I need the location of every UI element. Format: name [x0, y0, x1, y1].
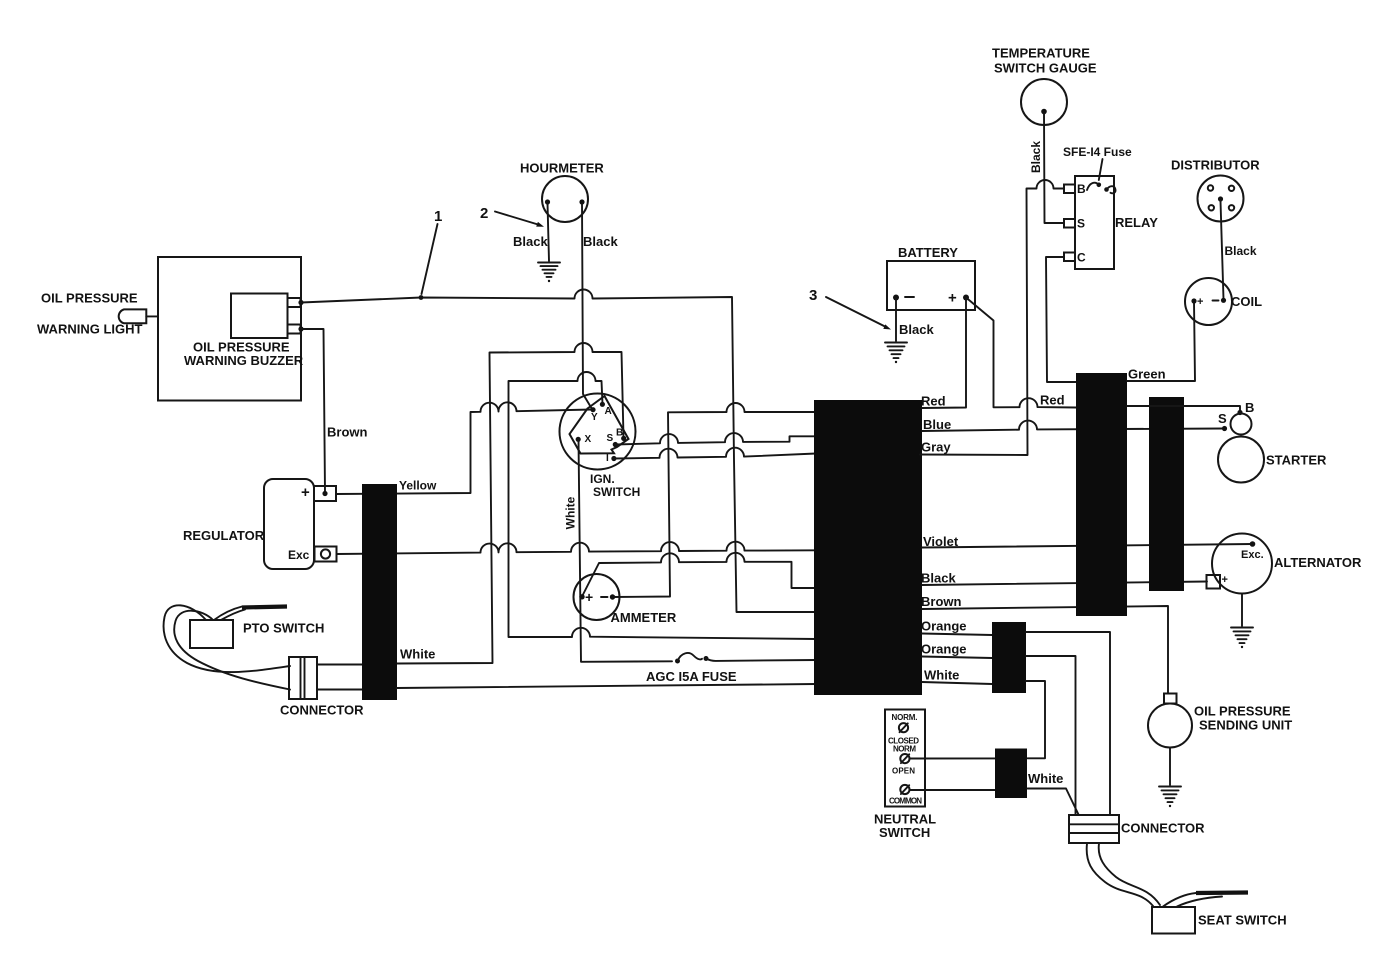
wire regulator Exc to main connector (hops risers) — [337, 542, 817, 554]
svg-text:Exc: Exc — [288, 548, 310, 562]
battery BT1 — [887, 245, 975, 310]
fuse F2 SFE-14 inside relay — [1063, 145, 1132, 193]
ammeter M1 — [574, 574, 677, 625]
connector block4 — [995, 749, 1027, 799]
wire battery minus Black to ground — [895, 299, 897, 342]
svg-text:B: B — [1077, 182, 1086, 196]
wire hourmeter right Black down to ign switch Y — [582, 203, 592, 409]
callout 3 — [809, 287, 891, 330]
svg-text:S: S — [607, 433, 614, 444]
svg-text:+: + — [301, 484, 310, 501]
wire hourmeter left Black to ground — [548, 203, 550, 261]
connector J1 (pto) — [280, 657, 364, 718]
svg-text:IGN.: IGN. — [590, 472, 615, 486]
svg-text:SWITCH GAUGE: SWITCH GAUGE — [994, 61, 1097, 76]
svg-text:Black: Black — [513, 234, 548, 249]
relay K1 — [1064, 176, 1158, 269]
svg-text:A: A — [605, 406, 612, 417]
coil T1 — [1185, 278, 1262, 325]
svg-text:AGC I5A FUSE: AGC I5A FUSE — [646, 669, 737, 684]
svg-text:RELAY: RELAY — [1115, 215, 1158, 230]
node junction 1 on bus — [419, 295, 424, 300]
svg-text:+: + — [948, 290, 957, 307]
starter solenoid — [1231, 414, 1252, 435]
svg-text:+: + — [1222, 574, 1228, 586]
callout 2 — [480, 205, 544, 227]
svg-text:Yellow: Yellow — [399, 479, 437, 493]
ground alternator — [1231, 628, 1253, 649]
neutral switch S3 — [874, 710, 936, 841]
wire Orange 1: main connector to block3 — [922, 634, 992, 636]
wire Red: battery + diagonal to block1 (hops relay riser) — [966, 298, 1076, 408]
svg-text:SWITCH: SWITCH — [879, 825, 930, 840]
node buzzer top terminal — [298, 300, 303, 305]
wire ign S to main connector (Blue row) — [616, 433, 817, 444]
main connector block (harness) — [814, 400, 922, 695]
svg-text:REGULATOR: REGULATOR — [183, 528, 265, 543]
svg-text:2: 2 — [480, 205, 488, 222]
svg-text:PTO SWITCH: PTO SWITCH — [243, 621, 324, 636]
svg-text:Black: Black — [583, 234, 618, 249]
wire Red: block1 to starter B — [1127, 406, 1240, 410]
seat switch S4 — [1152, 893, 1287, 934]
svg-text:S: S — [1218, 411, 1227, 426]
wire Gray: main connector up to relay B — [920, 180, 1064, 455]
svg-text:Gray: Gray — [921, 440, 951, 455]
svg-text:AMMETER: AMMETER — [611, 610, 677, 625]
svg-text:CONNECTOR: CONNECTOR — [1121, 821, 1205, 836]
ground battery — [885, 343, 907, 364]
wire Red: battery + down to main connector — [922, 299, 966, 408]
svg-text:OPEN: OPEN — [892, 767, 915, 776]
wire neutral switch norm-open to block4 — [910, 757, 996, 759]
svg-text:COMMON: COMMON — [889, 797, 922, 806]
svg-text:COIL: COIL — [1231, 294, 1262, 309]
svg-text:NORM.: NORM. — [892, 713, 918, 722]
svg-text:SWITCH: SWITCH — [593, 485, 640, 499]
svg-text:Exc.: Exc. — [1241, 549, 1264, 561]
svg-text:STARTER: STARTER — [1266, 453, 1327, 468]
wire Blue: main connector to starter S — [922, 421, 1224, 431]
ground sending unit — [1159, 787, 1181, 808]
starter solenoid terminal B — [1237, 410, 1242, 415]
svg-text:White: White — [1028, 771, 1063, 786]
svg-text:Black: Black — [1225, 244, 1257, 258]
hourmeter HM1 — [520, 161, 604, 223]
svg-text:I: I — [606, 453, 609, 464]
wire Black: distributor to coil - — [1221, 201, 1224, 299]
wire pto connector to block5 bottom — [317, 689, 362, 691]
wire White: main connector to block3 — [922, 682, 992, 684]
distributor — [1171, 158, 1260, 222]
svg-text:Blue: Blue — [923, 417, 951, 432]
svg-text:Y: Y — [591, 412, 598, 423]
wire Yellow: regulator + to harness riser to ign switch Y — [336, 402, 592, 494]
svg-text:Orange: Orange — [921, 619, 967, 634]
starter motor — [1218, 437, 1327, 483]
fuse F1 AGC 15A — [646, 653, 816, 684]
wire sending unit to ground — [1169, 748, 1171, 786]
svg-text:NORM: NORM — [893, 745, 916, 754]
wire Green: block1 to coil + — [1127, 302, 1195, 381]
svg-text:White: White — [564, 496, 578, 529]
svg-text:OIL PRESSURE: OIL PRESSURE — [1194, 704, 1291, 719]
wire Brown: main connector to oil pressure sending unit — [922, 606, 1168, 693]
svg-text:3: 3 — [809, 287, 817, 304]
wire ammeter minus up and right to main connector (Red row) — [613, 403, 817, 597]
svg-text:+: + — [585, 589, 593, 605]
svg-text:CONNECTOR: CONNECTOR — [280, 703, 364, 718]
wire pto connector to block5 top — [317, 664, 362, 666]
ign switch S1 — [560, 394, 641, 500]
wire bulb to buzzer box — [146, 315, 158, 317]
wire white continuation: block3 to block4 — [1026, 681, 1045, 758]
svg-text:Green: Green — [1128, 367, 1166, 382]
wire Black: gauge down to relay S — [1044, 112, 1064, 223]
svg-text:WARNING BUZZER: WARNING BUZZER — [184, 353, 304, 368]
svg-text:ALTERNATOR: ALTERNATOR — [1274, 555, 1362, 570]
wire ign I to main connector (Gray row) — [614, 448, 816, 459]
alternator — [1207, 534, 1362, 594]
svg-text:Orange: Orange — [921, 642, 967, 657]
svg-text:SFE-I4 Fuse: SFE-I4 Fuse — [1063, 145, 1132, 159]
regulator VR1 — [183, 479, 337, 569]
wire orange 1 continuation: block3 to connector J2 — [1026, 632, 1110, 815]
wire ign X down to fuse line — [579, 440, 673, 662]
oil pressure warning buzzer inner box — [184, 294, 304, 369]
wire White: block5 to ign switch B (via vertical riser and top line) — [397, 343, 624, 664]
oil pressure sending unit — [1148, 694, 1292, 748]
svg-text:B: B — [616, 428, 623, 439]
wire Brown buzzer to regulator + — [301, 329, 325, 492]
wire harness connector J2 to seat switch — [1087, 844, 1160, 907]
wire alternator case to ground — [1241, 594, 1243, 627]
wire neutral switch common to block4 — [910, 789, 996, 791]
svg-text:OIL PRESSURE: OIL PRESSURE — [41, 291, 138, 306]
node buzzer bottom terminal — [298, 326, 303, 331]
connector block1 — [1076, 373, 1127, 616]
svg-text:Brown: Brown — [327, 425, 368, 440]
svg-text:Violet: Violet — [923, 534, 959, 549]
svg-text:1: 1 — [434, 208, 442, 225]
wire Violet: main connector to alternator Exc — [922, 544, 1253, 548]
svg-text:C: C — [1077, 251, 1086, 265]
wire orange 2 continuation: block3 to connector J2 — [1026, 656, 1076, 815]
svg-text:+: + — [1197, 296, 1203, 308]
svg-text:BATTERY: BATTERY — [898, 245, 958, 260]
callout 1 — [422, 208, 443, 294]
svg-text:X: X — [585, 434, 592, 445]
wire Orange 2: main connector to block3 — [922, 657, 992, 659]
connector block3 — [992, 622, 1026, 693]
node starter S terminal — [1222, 426, 1227, 431]
svg-text:Black: Black — [899, 322, 934, 337]
wire ammeter plus diagonal and right to main connector (Black row) — [582, 553, 816, 597]
oil pressure warning buzzer outer box — [158, 257, 301, 401]
wire bus from buzzer to harness (hops hourmeter wire, down to brown row of main connector) — [301, 290, 816, 613]
svg-text:B: B — [1245, 400, 1254, 415]
wire bottom White row: block5 to main connector — [397, 684, 817, 688]
svg-text:SENDING UNIT: SENDING UNIT — [1199, 718, 1292, 733]
svg-text:S: S — [1077, 217, 1085, 231]
ground hourmeter — [538, 263, 560, 283]
temperature switch gauge G1 — [992, 46, 1097, 126]
svg-text:Red: Red — [1040, 393, 1065, 408]
svg-text:Brown: Brown — [921, 594, 962, 609]
svg-text:HOURMETER: HOURMETER — [520, 161, 604, 176]
connector block2 — [1149, 397, 1184, 591]
oil pressure warning light (bulb) — [37, 291, 146, 337]
svg-text:SEAT SWITCH: SEAT SWITCH — [1198, 913, 1287, 928]
connector J2 — [1069, 815, 1205, 843]
wire Black: main connector to alternator + — [922, 582, 1207, 586]
svg-text:WARNING LIGHT: WARNING LIGHT — [37, 322, 142, 337]
svg-text:Black: Black — [1029, 141, 1043, 173]
wire relay C to block1 — [1046, 257, 1076, 382]
pto switch S2 — [164, 605, 325, 689]
svg-text:White: White — [924, 668, 959, 683]
svg-text:TEMPERATURE: TEMPERATURE — [992, 46, 1090, 61]
svg-text:Black: Black — [921, 571, 956, 586]
wire White: block4 to connector J2 — [1028, 789, 1079, 815]
svg-text:Red: Red — [921, 394, 946, 409]
wire ign switch A branch: A up, left to riser, down, right to main connector — [509, 372, 817, 639]
svg-text:DISTRIBUTOR: DISTRIBUTOR — [1171, 158, 1260, 173]
connector block5 (left harness bar) — [362, 484, 397, 700]
svg-text:White: White — [400, 647, 435, 662]
